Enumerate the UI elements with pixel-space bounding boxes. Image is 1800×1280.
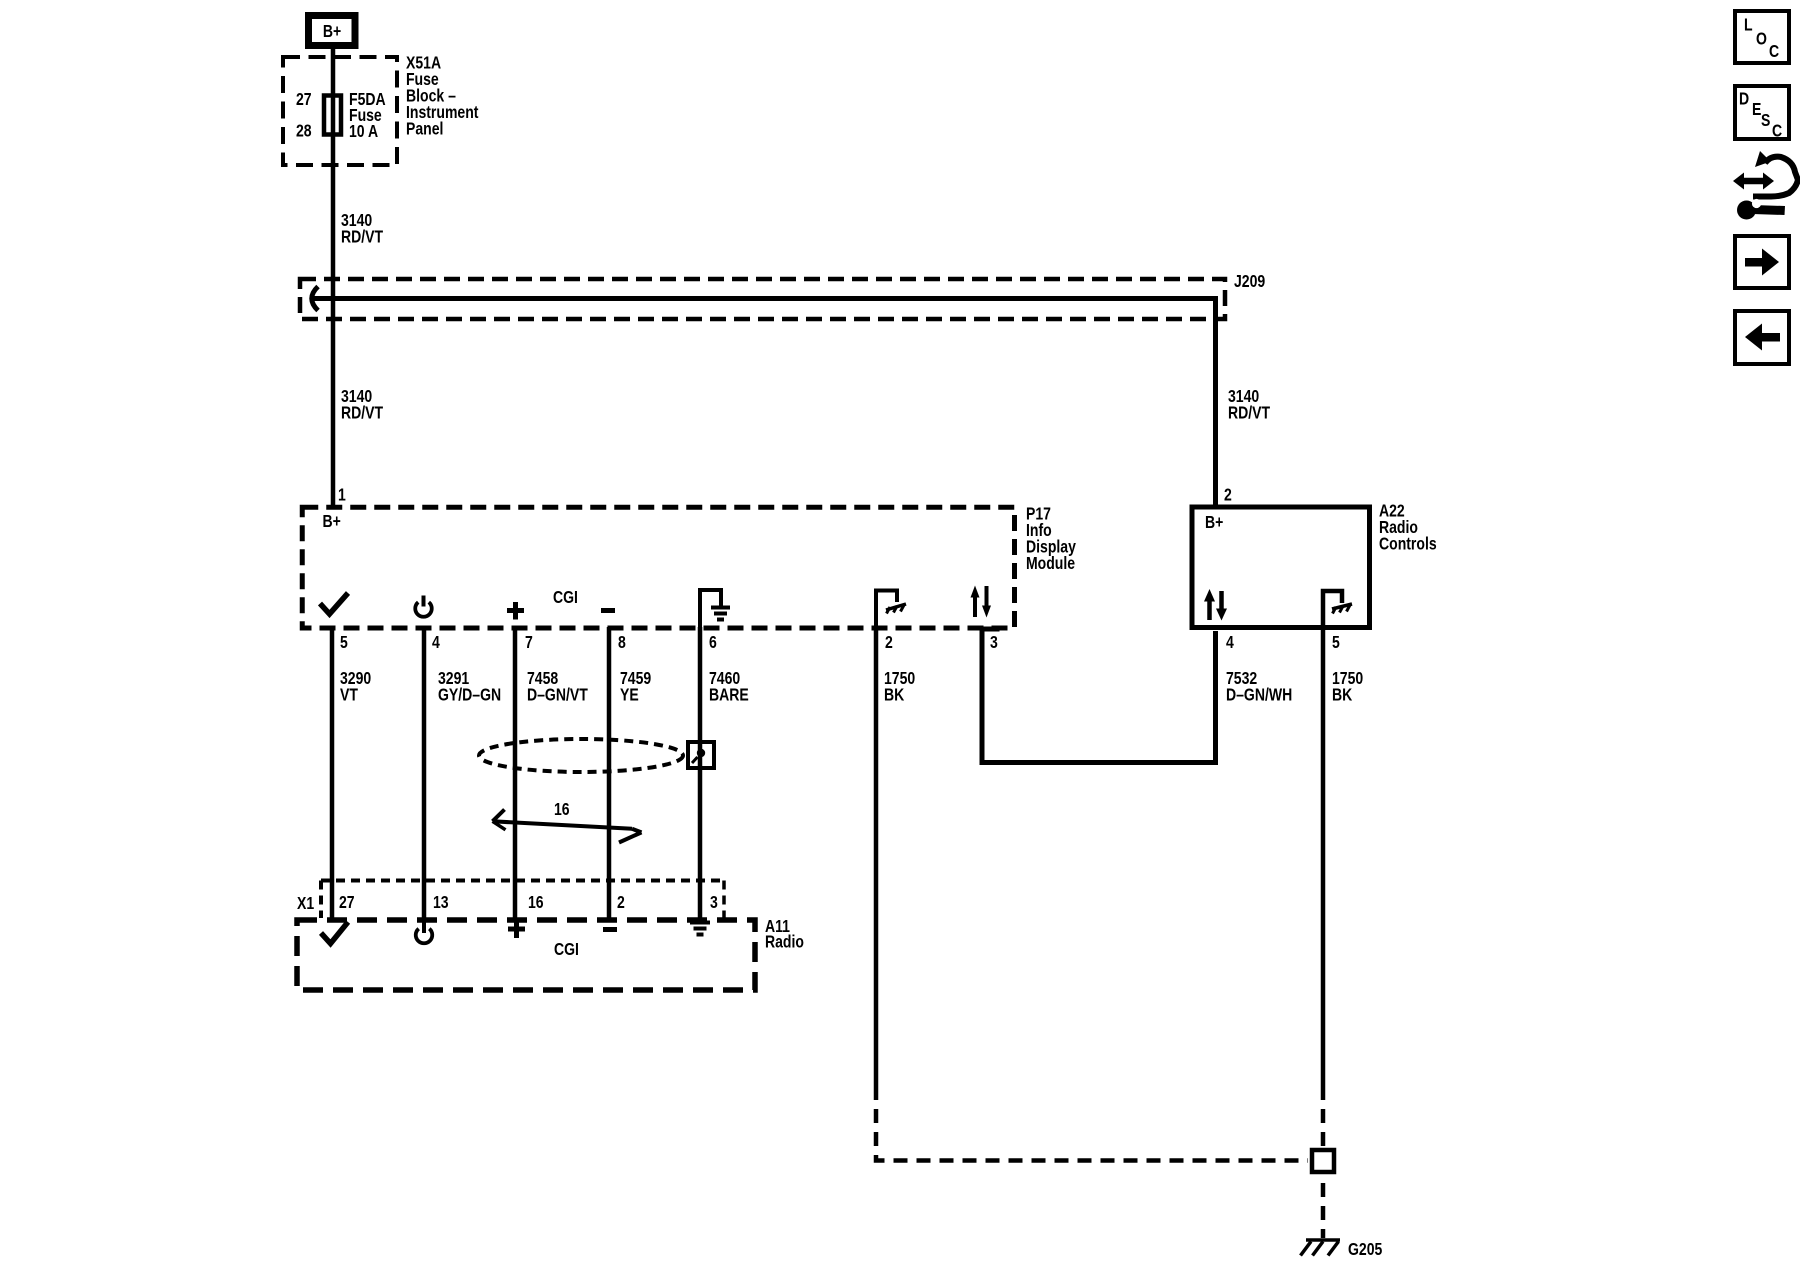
wire 3290 VT (P17 pin 5 to radio X1-27) (330, 627, 335, 919)
wire 7459 YE label (620, 668, 651, 705)
svg-text:4: 4 (1226, 632, 1234, 652)
radio A11 name label (765, 916, 804, 952)
svg-text:5: 5 (1332, 632, 1340, 652)
fuse block X51A dashed enclosure (283, 57, 397, 165)
icon power symbol (P17 pin 4 function) (415, 596, 432, 617)
svg-text:10 A: 10 A (349, 121, 378, 141)
connector X1 dashed strip (radio A11) (321, 881, 724, 919)
svg-text:D–GN/VT: D–GN/VT (527, 685, 588, 705)
wire 3290 VT label (340, 668, 371, 705)
wire 3140 RD/VT label (above J209) (341, 210, 383, 247)
fuse block X51A name label (406, 53, 479, 139)
svg-text:4: 4 (432, 632, 440, 652)
ground (earth) symbol at P17 pin 6 (700, 590, 730, 627)
wire from splice J209 right and down to A22 pin 2 (311, 299, 1216, 507)
svg-text:X1: X1 (297, 893, 314, 913)
svg-text:CGI: CGI (553, 587, 578, 607)
svg-text:7: 7 (525, 632, 533, 652)
shield ellipse around CGI pair (479, 739, 683, 772)
svg-text:Panel: Panel (406, 119, 443, 139)
node B+ battery feed terminal box (309, 16, 356, 46)
module A22 solid enclosure (1192, 507, 1370, 628)
ground (earth) symbol at A11 pin 3 (690, 923, 710, 935)
icon up/down arrows (P17 pin 3 serial data) (971, 586, 992, 618)
svg-text:J209: J209 (1234, 271, 1265, 291)
svg-text:CGI: CGI (554, 939, 579, 959)
shield drain termination box (688, 742, 714, 768)
nav icon wrench with arrows (1733, 151, 1798, 220)
svg-text:S: S (1761, 110, 1771, 130)
wire 1750 BK dashed continuation to ground junction (876, 1086, 1308, 1161)
wire 1750 BK label (A22 side) (1332, 668, 1363, 705)
wire 3291 GY/D-GN (P17 pin 4 to radio X1-13) (422, 627, 427, 919)
junction terminal box above G205 (1312, 1150, 1334, 1172)
wire 3140 RD/VT label (left, below J209) (341, 386, 383, 423)
svg-text:B+: B+ (322, 511, 340, 531)
svg-text:16: 16 (554, 799, 570, 819)
ground G205 chassis ground symbol (1301, 1240, 1341, 1256)
module P17 dashed enclosure (302, 507, 1014, 628)
svg-text:5: 5 (340, 632, 348, 652)
svg-text:BK: BK (1332, 685, 1353, 705)
svg-text:Radio: Radio (765, 932, 804, 952)
icon minus (A11 CGI-) (603, 927, 617, 932)
svg-text:27: 27 (296, 89, 312, 109)
icon plus (P17 pin 7 CGI+) (507, 602, 524, 620)
svg-text:2: 2 (617, 892, 625, 912)
svg-text:L: L (1744, 15, 1753, 35)
svg-text:28: 28 (296, 121, 312, 141)
svg-text:16: 16 (528, 892, 544, 912)
svg-text:D: D (1739, 89, 1749, 109)
fuse F5DA value label (349, 89, 386, 141)
chassis ground symbol at P17 pin 2 (876, 591, 906, 628)
splice J209 dashed enclosure (300, 279, 1225, 319)
wire dashed stub from junction to G205 (1321, 1174, 1326, 1238)
svg-text:Module: Module (1026, 553, 1075, 573)
chassis ground symbol inside A22 (pin 5) (1323, 591, 1352, 629)
icon power symbol (A11) (416, 922, 432, 943)
svg-text:GY/D–GN: GY/D–GN (438, 685, 501, 705)
svg-text:G205: G205 (1348, 1239, 1382, 1259)
svg-text:2: 2 (885, 632, 893, 652)
icon checkmark (A11) (321, 922, 348, 944)
nav icon DESC button (1735, 86, 1789, 141)
wire 1750 BK (A22 pin 5, solid part) (1321, 629, 1326, 1086)
svg-text:RD/VT: RD/VT (341, 227, 383, 247)
svg-text:YE: YE (620, 685, 639, 705)
svg-text:B+: B+ (1205, 512, 1223, 532)
svg-text:BK: BK (884, 685, 905, 705)
module A22 name label (1379, 501, 1437, 554)
wire 1750 BK (P17 pin 2, solid part) (874, 627, 879, 1086)
svg-text:RD/VT: RD/VT (341, 403, 383, 423)
radio A11 dashed enclosure (297, 920, 755, 990)
svg-text:E: E (1752, 99, 1762, 119)
conductor count arrow with 16 label (493, 799, 642, 842)
wire 1750 BK dashed continuation above ground junction (1321, 1086, 1326, 1148)
svg-text:Controls: Controls (1379, 534, 1437, 554)
wire 7460 BARE label (709, 668, 749, 705)
wire 7532 D-GN/WH label (1226, 668, 1292, 705)
icon plus (A11 CGI+) (508, 921, 525, 939)
wire 7458 D-GN/VT (P17 pin 7 to radio X1-16) (513, 627, 518, 919)
splice hook symbol at J209 (312, 287, 318, 311)
nav icon forward arrow button (1735, 236, 1789, 288)
icon minus (P17 pin 8 CGI-) (601, 608, 615, 613)
svg-text:8: 8 (618, 632, 626, 652)
wire 7458 D-GN/VT label (527, 668, 588, 705)
module P17 name label (1026, 504, 1076, 574)
svg-text:D–GN/WH: D–GN/WH (1226, 685, 1292, 705)
icon checkmark (P17 pin 5 function) (320, 593, 348, 614)
svg-text:3: 3 (710, 892, 718, 912)
svg-text:BARE: BARE (709, 685, 749, 705)
svg-text:B+: B+ (323, 21, 341, 41)
nav icon back arrow button (1735, 311, 1789, 364)
nav icon LOC button (1735, 11, 1789, 63)
wire 3291 GY/D-GN label (438, 668, 501, 705)
wire 3140 RD/VT label (right branch) (1228, 386, 1270, 423)
svg-text:C: C (1772, 121, 1782, 141)
wire 7459 YE (P17 pin 8 to radio X1-2) (607, 627, 612, 919)
wire 7532 D-GN/WH (P17 pin 3 to A22 pin 4) (982, 629, 1216, 763)
fuse F5DA symbol (324, 96, 341, 135)
svg-text:1: 1 (338, 485, 346, 505)
svg-text:O: O (1756, 29, 1767, 49)
svg-text:27: 27 (339, 892, 355, 912)
svg-text:6: 6 (709, 632, 717, 652)
svg-text:VT: VT (340, 685, 358, 705)
svg-text:3: 3 (990, 632, 998, 652)
wire from B+ through fuse F5DA down to splice J209 and P17 pin 1 (331, 49, 336, 506)
svg-text:RD/VT: RD/VT (1228, 403, 1270, 423)
wire 1750 BK label (P17 side) (884, 668, 915, 705)
svg-text:2: 2 (1224, 485, 1232, 505)
svg-text:C: C (1769, 41, 1779, 61)
svg-text:13: 13 (433, 892, 449, 912)
wire 7460 BARE drain (P17 pin 6 to radio X1-3) (698, 627, 703, 921)
icon up/down arrows (A22 serial data) (1204, 589, 1227, 621)
